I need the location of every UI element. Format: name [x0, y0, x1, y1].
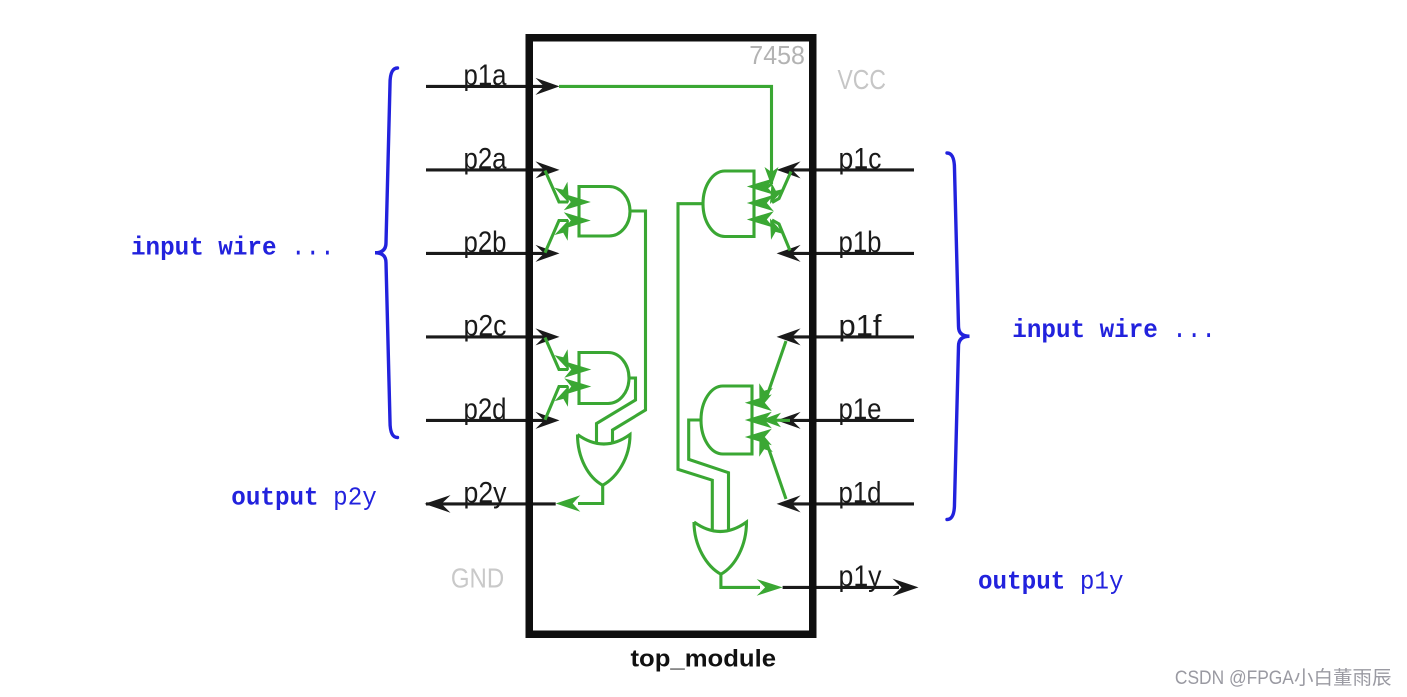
- svg-text:input wire: input wire: [1012, 315, 1158, 345]
- svg-text:p1y: p1y: [1065, 566, 1123, 596]
- svg-text:top_module: top_module: [631, 646, 777, 673]
- svg-text:p1f: p1f: [839, 309, 883, 342]
- svg-text:input wire: input wire: [131, 233, 277, 263]
- svg-text:VCC: VCC: [838, 64, 886, 95]
- svg-text:7458: 7458: [749, 40, 805, 70]
- svg-text:GND: GND: [451, 563, 504, 594]
- svg-text:p2a: p2a: [464, 142, 507, 175]
- svg-text:p1e: p1e: [839, 393, 882, 426]
- svg-text:p2d: p2d: [464, 393, 507, 426]
- svg-text:CSDN @FPGA: CSDN @FPGA: [1175, 668, 1294, 689]
- svg-text:p2c: p2c: [464, 309, 507, 342]
- svg-text:...: ...: [1172, 315, 1216, 345]
- svg-text:p2y: p2y: [464, 476, 507, 509]
- svg-text:p2y: p2y: [319, 482, 377, 512]
- svg-text:output: output: [231, 482, 318, 512]
- svg-text:p1b: p1b: [839, 226, 882, 259]
- svg-text:...: ...: [291, 233, 335, 263]
- svg-text:小白董雨辰: 小白董雨辰: [1294, 667, 1392, 689]
- svg-text:output: output: [978, 566, 1065, 596]
- svg-text:p1c: p1c: [839, 142, 882, 175]
- svg-text:p1y: p1y: [839, 560, 882, 593]
- svg-text:p2b: p2b: [464, 226, 507, 259]
- svg-text:p1a: p1a: [464, 59, 507, 92]
- svg-text:p1d: p1d: [839, 476, 882, 509]
